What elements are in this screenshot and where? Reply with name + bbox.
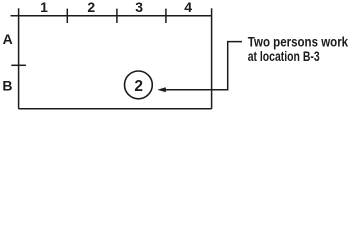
svg-text:2: 2 — [134, 78, 143, 95]
svg-text:3: 3 — [135, 0, 143, 15]
svg-text:at location B-3: at location B-3 — [248, 48, 320, 64]
svg-text:Two persons work: Two persons work — [248, 33, 348, 49]
svg-text:2: 2 — [87, 0, 95, 15]
svg-text:B: B — [2, 78, 12, 94]
svg-text:4: 4 — [184, 0, 192, 15]
svg-text:A: A — [3, 31, 13, 47]
svg-text:1: 1 — [40, 0, 48, 15]
